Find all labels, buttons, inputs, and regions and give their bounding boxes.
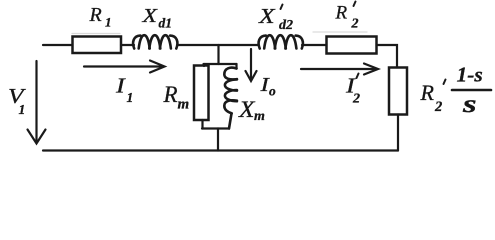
faint scan artifact line right [313, 31, 367, 33]
wire bottom [43, 149, 398, 151]
svg-text:2: 2 [351, 17, 359, 32]
svg-text:R: R [335, 3, 348, 24]
inductor Xm [224, 68, 237, 129]
faint scan artifact line left [72, 33, 120, 35]
svg-text:X: X [258, 5, 277, 28]
wire junction stub to magnetizing branch [217, 45, 219, 64]
wire Xd2 to R2' [302, 44, 327, 46]
wire bar to Xm [235, 64, 237, 69]
inductor Xd2' [259, 35, 303, 48]
svg-text:2: 2 [352, 92, 360, 107]
svg-text:m: m [254, 109, 265, 124]
resistor R1 [73, 37, 122, 54]
svg-text:2: 2 [434, 99, 442, 115]
wire parallel top bar [204, 63, 237, 65]
arrow V1 [35, 61, 37, 143]
svg-text:X: X [141, 5, 158, 27]
prime of I2 label [357, 74, 359, 79]
svg-text:o: o [269, 84, 276, 99]
svg-text:s: s [462, 90, 477, 118]
wire R1 to Xd1 [121, 44, 134, 46]
svg-text:1: 1 [105, 15, 112, 30]
wire bar to Rm [203, 64, 205, 66]
wire bar to bottom wire [217, 129, 219, 151]
svg-text:d2: d2 [279, 18, 293, 33]
svg-text:1: 1 [127, 90, 134, 105]
svg-text:m: m [178, 97, 190, 113]
svg-text:1-s: 1-s [457, 63, 483, 87]
arrow I2' [301, 68, 376, 70]
svg-text:R: R [89, 4, 102, 26]
svg-text:R: R [163, 82, 178, 107]
wire Rm bottom stub [201, 120, 203, 129]
prime of right R2 label [444, 80, 446, 85]
resistor Rm [194, 66, 209, 121]
svg-text:d1: d1 [159, 16, 173, 31]
arrow I1 [84, 65, 163, 67]
resistor R2'(1-s)/s box [389, 68, 407, 115]
prime of Xd2 label [281, 5, 283, 10]
wire top-left [43, 44, 73, 46]
resistor R2' [327, 37, 377, 54]
wire Xd1 to Xd2 [177, 44, 259, 46]
prime of R2 label [354, 2, 356, 7]
wire right branch bottom [397, 115, 399, 151]
inductor Xd1 [133, 35, 177, 48]
arrow Io [250, 49, 252, 80]
wire R2' to right branch [377, 45, 398, 68]
svg-text:I: I [115, 75, 126, 98]
fraction bar (1-s)/s [452, 89, 491, 92]
wire parallel bottom bar [202, 127, 229, 129]
svg-text:R: R [420, 80, 435, 105]
svg-text:1: 1 [19, 102, 26, 117]
